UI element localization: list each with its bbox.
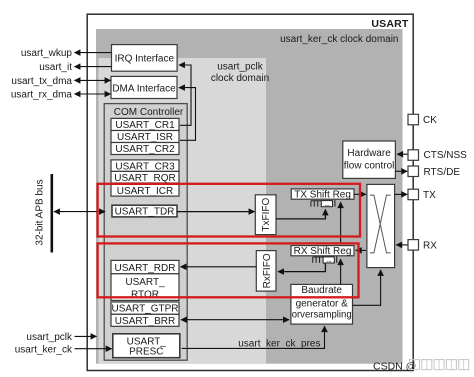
svg-text:RxFIFO: RxFIFO: [262, 253, 273, 288]
Hardware flow control box: [343, 141, 396, 178]
svg-text:usart_rx_dma: usart_rx_dma: [11, 90, 73, 101]
wire RX shift reg to RxFIFO: [278, 264, 325, 272]
usart_pclk clock domain region: [99, 58, 267, 364]
svg-text:CTS/NSS: CTS/NSS: [424, 150, 468, 161]
RX Shift Reg box: [291, 246, 354, 256]
pin RX: [408, 240, 419, 251]
svg-text:Hardware: Hardware: [347, 148, 391, 159]
wire mux to RX shift reg: [356, 249, 366, 251]
register USART_CR1: [111, 118, 179, 130]
register USART_GTPR: [111, 302, 179, 314]
pin CK: [408, 114, 419, 125]
svg-text:usart_ker_ck_pres: usart_ker_ck_pres: [238, 338, 320, 349]
pin RTS/DE: [408, 166, 419, 177]
IRQ Interface box: [112, 45, 178, 72]
svg-text:USART: USART: [371, 18, 409, 30]
svg-text:usart_ker_ck: usart_ker_ck: [15, 344, 73, 355]
svg-text:TX: TX: [423, 190, 436, 201]
USART block outline: [87, 14, 413, 370]
svg-text:COM Controller: COM Controller: [114, 107, 184, 118]
wire TxFIFO to TX shift reg: [276, 209, 325, 219]
svg-text:RX: RX: [423, 241, 437, 252]
pin CTS/NSS: [408, 150, 419, 161]
svg-text:CK: CK: [423, 115, 437, 126]
wire mux to TX pin: [395, 193, 408, 195]
svg-text:USART_BRR: USART_BRR: [115, 316, 175, 327]
svg-text:usart_it: usart_it: [39, 62, 72, 73]
register USART_PRESC: [113, 334, 180, 358]
svg-text:IRQ Interface: IRQ Interface: [115, 54, 175, 65]
wire CTS to hardware flow control: [397, 153, 408, 155]
register USART_TDR: [112, 205, 177, 217]
wire BRR to baudrate generator: [181, 319, 289, 321]
svg-text:usart_pclk: usart_pclk: [26, 332, 73, 343]
wire baudrate clock to RX shift reg: [340, 259, 342, 284]
svg-text:PRESC: PRESC: [129, 347, 163, 358]
register USART_RDR: [111, 260, 179, 273]
svg-text:flow control: flow control: [344, 160, 395, 171]
svg-text:USART_RDR: USART_RDR: [115, 263, 176, 274]
svg-text:USART_: USART_: [125, 277, 165, 288]
register USART_ISR: [111, 131, 179, 143]
register USART_RTOR: [111, 274, 179, 301]
pin TX: [408, 189, 419, 200]
svg-text:USART_RQR: USART_RQR: [114, 173, 176, 184]
svg-text:orversampling: orversampling: [292, 310, 352, 321]
RX shift register bits: [313, 257, 323, 263]
32-bit APB bus line: [50, 174, 53, 253]
wire usart_wkup: [75, 52, 112, 54]
wire TX shift reg to mux: [354, 193, 366, 195]
svg-text:USART_CR3: USART_CR3: [115, 161, 175, 172]
svg-text:...: ...: [324, 199, 329, 208]
wire hardware flow control to RTS: [396, 170, 408, 172]
svg-text:USART_CR1: USART_CR1: [115, 120, 175, 131]
register USART_BRR: [111, 314, 179, 326]
wire usart_rx_dma: [75, 93, 111, 95]
TX shift register bits: [311, 201, 321, 207]
wire RxFIFO to RDR: [181, 266, 257, 268]
red highlight rect 2 (RDR path): [98, 243, 359, 297]
register USART_CR2: [111, 143, 179, 155]
register USART_CR3: [111, 160, 179, 172]
mux box: [367, 184, 395, 267]
TxFIFO box: [255, 195, 276, 235]
register USART_RQR: [111, 171, 179, 183]
svg-text:USART_ICR: USART_ICR: [117, 186, 174, 197]
svg-text:USART_CR2: USART_CR2: [115, 144, 175, 155]
svg-text:USART_ISR: USART_ISR: [117, 132, 173, 143]
svg-text:32-bit APB bus: 32-bit APB bus: [35, 179, 46, 245]
wire TDR to TxFIFO: [177, 211, 255, 213]
wire usart_ker_ck_pres: [182, 326, 325, 348]
Baudrate generator box: [291, 284, 353, 324]
svg-text:RTS/DE: RTS/DE: [424, 167, 461, 178]
wire baudrate clock to TX shift reg: [340, 202, 342, 244]
svg-text:USART_GTPR: USART_GTPR: [111, 304, 178, 315]
svg-text:DMA Interface: DMA Interface: [112, 83, 176, 94]
COM Controller container: [104, 104, 187, 361]
svg-text:usart_tx_dma: usart_tx_dma: [11, 76, 72, 87]
wire usart_ker_ck: [75, 348, 112, 350]
wire usart_tx_dma: [75, 79, 111, 81]
svg-text:USART_TDR: USART_TDR: [115, 207, 175, 218]
svg-text:RTOR: RTOR: [131, 289, 159, 300]
wire RX pin to mux: [396, 244, 408, 246]
RxFIFO box: [256, 251, 276, 292]
wire usart_pclk: [75, 335, 97, 337]
svg-text:Baudrate: Baudrate: [301, 285, 342, 296]
wire baudrate generator to mux: [353, 270, 381, 305]
red highlight rect 1 (TDR path): [98, 184, 360, 237]
mux crossover symbol: [370, 195, 391, 253]
TX Shift Reg box: [291, 189, 354, 199]
wire usart_it: [75, 66, 112, 68]
svg-text:usart_wkup: usart_wkup: [21, 48, 73, 59]
register USART_ICR: [111, 184, 179, 196]
svg-text:generator &: generator &: [296, 298, 349, 309]
svg-text:usart_pclk: usart_pclk: [217, 62, 264, 73]
DMA Interface box: [111, 76, 177, 98]
svg-text:usart_ker_ck clock domain: usart_ker_ck clock domain: [280, 34, 398, 45]
usart_ker_ck clock domain region: [96, 29, 403, 364]
wire IRQ to registers: [179, 65, 191, 125]
svg-text:TxFIFO: TxFIFO: [261, 198, 272, 232]
svg-text:clock domain: clock domain: [211, 73, 269, 84]
wire APB bus to registers: [54, 211, 105, 213]
svg-text:RX Shift Reg: RX Shift Reg: [294, 246, 352, 257]
wire DMA to registers: [179, 88, 196, 141]
svg-text:TX Shift Reg: TX Shift Reg: [294, 189, 351, 200]
svg-text:...: ...: [326, 255, 331, 264]
